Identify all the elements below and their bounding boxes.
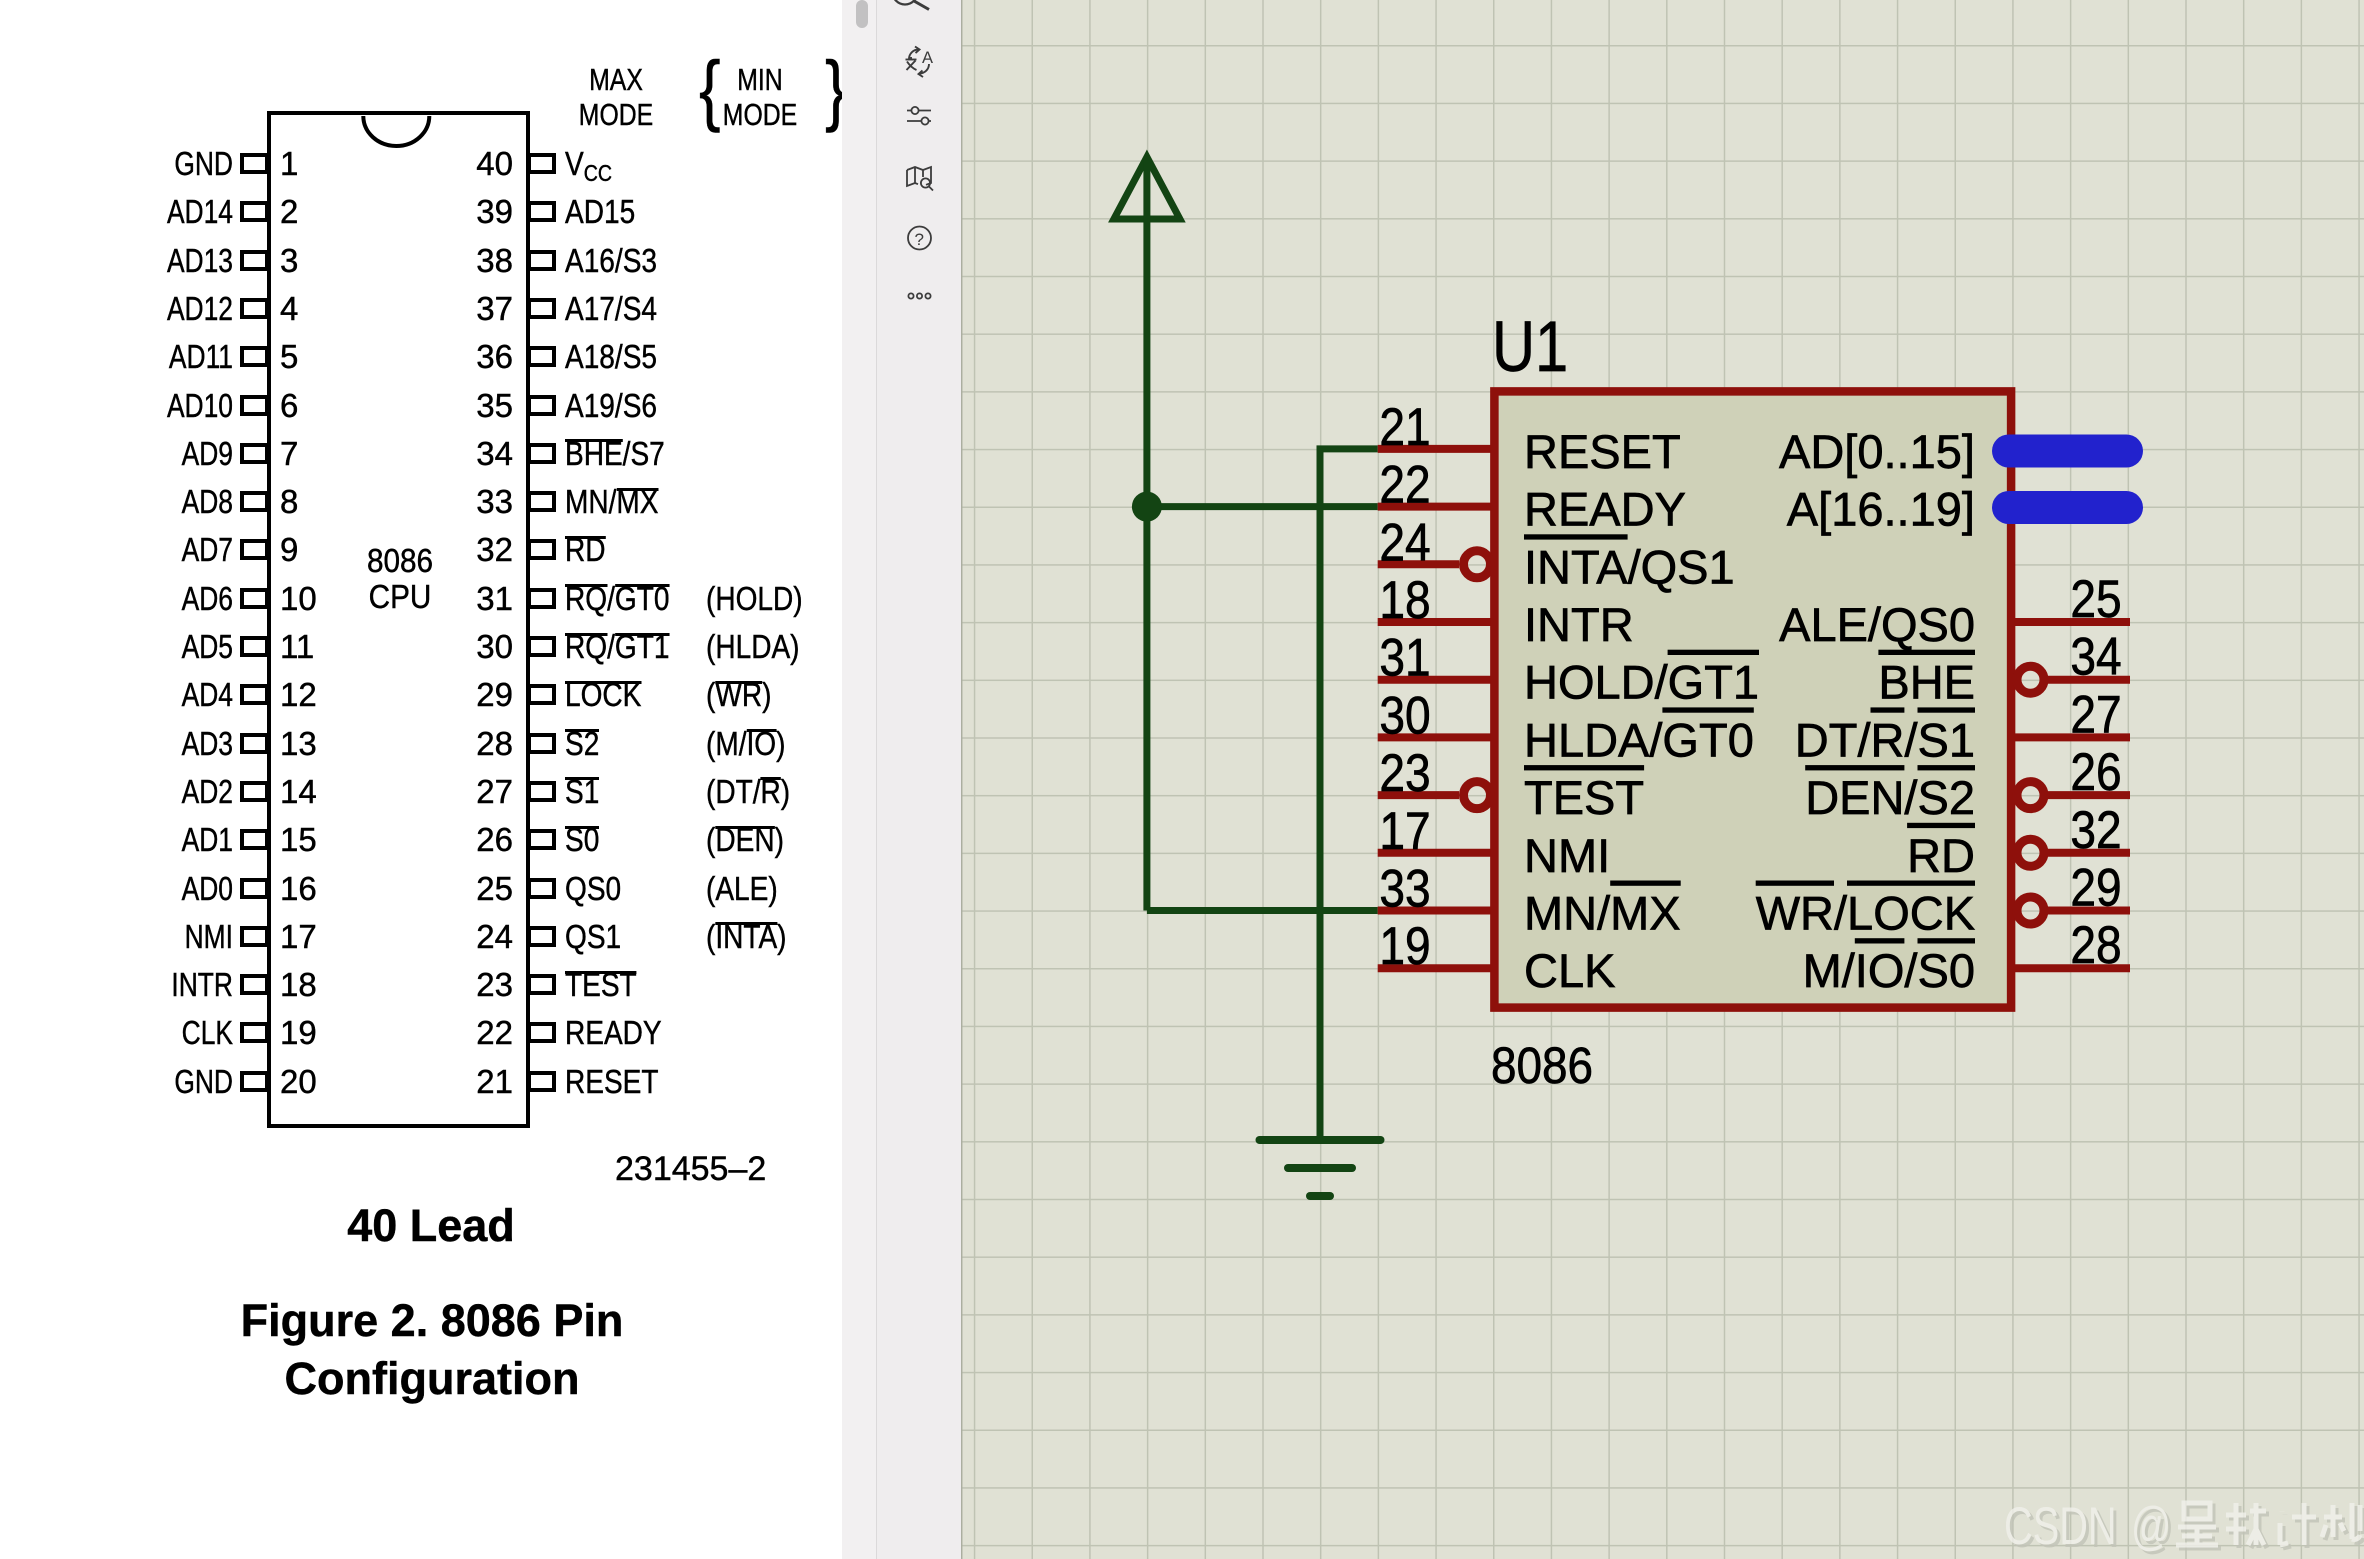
- pin name NMI: [1524, 829, 1610, 882]
- pin name BHE: [1878, 650, 1975, 709]
- DIP pin 38 right side: [527, 250, 556, 271]
- pin 25 (ALE/QS0) stub right: [2015, 618, 2130, 626]
- svg-text:CLK: CLK: [1524, 944, 1615, 997]
- svg-text:U1: U1: [1492, 307, 1568, 386]
- DIP pin 37 right side: [527, 298, 556, 319]
- icon help: [908, 227, 931, 250]
- svg-text:ALE/QS0: ALE/QS0: [1779, 598, 1975, 651]
- DIP pin 29 right side: [527, 684, 556, 705]
- pin 23 (TEST) stub left: [1378, 782, 1491, 809]
- icon sliders: [907, 107, 931, 125]
- bus AD[0..15]: [1992, 435, 2143, 468]
- DIP pin 19 (CLK) left side: [240, 1022, 269, 1043]
- pin number 26: [2070, 742, 2121, 802]
- svg-text:31: 31: [1379, 628, 1430, 688]
- icon more dots: [908, 293, 930, 298]
- DIP pin 21 right side: [527, 1071, 556, 1092]
- pin number 25: [2070, 569, 2121, 629]
- svg-text:TEST: TEST: [1524, 771, 1644, 824]
- DIP pin 31 right side: [527, 588, 556, 609]
- DIP pin 34 right side: [527, 443, 556, 464]
- pin name READY: [1524, 483, 1686, 536]
- svg-text:BHE: BHE: [1878, 656, 1975, 709]
- pin number 28: [2070, 915, 2121, 975]
- svg-text:32: 32: [2070, 800, 2121, 860]
- pin name HLDA/GT0: [1524, 707, 1754, 766]
- pin 22 (READY) stub left: [1378, 503, 1491, 511]
- pin name CLK: [1524, 944, 1615, 997]
- pin number 34: [2070, 627, 2121, 687]
- pin name INTA/QS1: [1524, 534, 1735, 593]
- DIP pin 25 right side: [527, 878, 556, 899]
- pin number 33: [1379, 858, 1430, 918]
- pin number 31: [1379, 628, 1430, 688]
- svg-text:DEN/S2: DEN/S2: [1805, 771, 1975, 824]
- DIP pin 18 (INTR) left side: [240, 974, 269, 995]
- DIP pin 27 right side: [527, 781, 556, 802]
- svg-text:A: A: [922, 49, 933, 67]
- svg-text:MN/MX: MN/MX: [1524, 887, 1681, 940]
- DIP pin 7 (AD9) left side: [240, 443, 269, 464]
- DIP pin 26 right side: [527, 829, 556, 850]
- DIP pin 17 (NMI) left side: [240, 926, 269, 947]
- wire VCC vertical rail: [1143, 219, 1150, 911]
- svg-text:HLDA/GT0: HLDA/GT0: [1524, 713, 1754, 766]
- pin name M/IO/S0: [1803, 938, 1975, 997]
- pin name ALE/QS0: [1779, 598, 1975, 651]
- svg-text:?: ?: [915, 230, 924, 249]
- svg-text:33: 33: [1379, 858, 1430, 918]
- watermark CSDN @xingxinjihua: [2004, 1496, 2174, 1558]
- DIP pin 3 (AD13) left side: [240, 250, 269, 271]
- svg-text:21: 21: [1379, 397, 1430, 457]
- DIP pin 9 (AD7) left side: [240, 539, 269, 560]
- label MAX MODE header: [568, 62, 664, 132]
- DIP pin 35 right side: [527, 395, 556, 416]
- DIP pin 11 (AD5) left side: [240, 636, 269, 657]
- svg-text:M/IO/S0: M/IO/S0: [1803, 944, 1975, 997]
- IC U1 8086 body: [1494, 391, 2011, 1007]
- label 8086 CPU inside body: [337, 543, 463, 615]
- power symbol VCC arrow: [1114, 157, 1180, 219]
- DIP pin 1 (GND) left side: [240, 153, 269, 174]
- pin 29 (WR/LOCK) stub right: [2017, 897, 2130, 924]
- DIP pin 15 (AD1) left side: [240, 829, 269, 850]
- svg-text:RD: RD: [1907, 829, 1975, 882]
- svg-text:23: 23: [1379, 743, 1430, 803]
- svg-text:AD[0..15]: AD[0..15]: [1779, 425, 1975, 478]
- DIP pin 5 (AD11) left side: [240, 346, 269, 367]
- DIP pin 40 right side: [527, 153, 556, 174]
- wire RESET pin to ground rail: [1320, 449, 1378, 1140]
- pin name DT/R/S1: [1795, 707, 1975, 766]
- pin number 24: [1379, 512, 1430, 572]
- svg-text:WR/LOCK: WR/LOCK: [1756, 887, 1975, 940]
- svg-text:RESET: RESET: [1524, 425, 1681, 478]
- pin number 17: [1379, 801, 1430, 861]
- DIP pin 23 right side: [527, 974, 556, 995]
- DIP pin 28 right side: [527, 733, 556, 754]
- label 231455-2: [615, 1150, 766, 1189]
- label 8086 component value: [1491, 1038, 1593, 1095]
- svg-text:READY: READY: [1524, 483, 1686, 536]
- pin name MN/MX: [1524, 881, 1681, 940]
- label MIN MODE header with braces: [699, 43, 721, 135]
- pin name RESET: [1524, 425, 1681, 478]
- pin name TEST: [1524, 765, 1644, 824]
- toolbar strip: [876, 0, 961, 1559]
- DIP pin 14 (AD2) left side: [240, 781, 269, 802]
- svg-text:NMI: NMI: [1524, 829, 1610, 882]
- pin 32 (RD) stub right: [2017, 839, 2130, 866]
- svg-text:30: 30: [1379, 685, 1430, 745]
- icon translate: [909, 47, 929, 78]
- schematic sheet left boundary: [961, 0, 963, 1559]
- pin 30 (HLDA/GT0) stub left: [1378, 733, 1491, 741]
- pin 18 (INTR) stub left: [1378, 618, 1491, 626]
- pin 27 (DT/R/S1) stub right: [2015, 733, 2130, 741]
- svg-text:HOLD/GT1: HOLD/GT1: [1524, 656, 1759, 709]
- DIP pin 22 right side: [527, 1022, 556, 1043]
- icon magnifier (clipped at top): [893, 0, 918, 5]
- caption Figure 2. 8086 Pin Configuration: [132, 1292, 732, 1408]
- IC notch (pin-1 index): [267, 110, 530, 170]
- DIP pin 13 (AD3) left side: [240, 733, 269, 754]
- svg-text:CSDN: CSDN: [2004, 1496, 2117, 1555]
- pin 19 (CLK) stub left: [1378, 964, 1491, 972]
- ground symbol: [1260, 1140, 1381, 1196]
- caption 40 Lead: [131, 1200, 731, 1252]
- svg-text:25: 25: [2070, 569, 2121, 629]
- pin 21 (RESET) stub left: [1378, 445, 1491, 453]
- icon map with magnifier: [907, 167, 933, 191]
- svg-text:28: 28: [2070, 915, 2121, 975]
- DIP pin 4 (AD12) left side: [240, 298, 269, 319]
- svg-text:@: @: [2131, 1496, 2171, 1555]
- pin name DEN/S2: [1805, 765, 1975, 824]
- pin 24 (INTA/QS1) stub left: [1378, 551, 1491, 578]
- pin name INTR: [1524, 598, 1634, 651]
- svg-text:A[16..19]: A[16..19]: [1787, 483, 1975, 536]
- pin number 23: [1379, 743, 1430, 803]
- bus A[16..19]: [1992, 491, 2143, 524]
- svg-text:34: 34: [2070, 627, 2121, 687]
- DIP pin 12 (AD4) left side: [240, 684, 269, 705]
- DIP pin 24 right side: [527, 926, 556, 947]
- DIP pin 10 (AD6) left side: [240, 588, 269, 609]
- svg-text:19: 19: [1379, 916, 1430, 976]
- svg-text:22: 22: [1379, 455, 1430, 515]
- svg-text:26: 26: [2070, 742, 2121, 802]
- junction dot node VCC/READY: [1132, 492, 1162, 522]
- DIP pin 32 right side: [527, 539, 556, 560]
- DIP pin 36 right side: [527, 346, 556, 367]
- svg-text:DT/R/S1: DT/R/S1: [1795, 713, 1975, 766]
- DIP pin 33 right side: [527, 491, 556, 512]
- pin name WR/LOCK: [1756, 881, 1975, 940]
- label U1 reference designator: [1492, 307, 1568, 386]
- pin 17 (NMI) stub left: [1378, 849, 1491, 857]
- DIP pin 8 (AD8) left side: [240, 491, 269, 512]
- IC body 8086 CPU DIP-40 outline: [267, 111, 530, 1128]
- pin number 19: [1379, 916, 1430, 976]
- toolbar scrollbar gutter: [842, 0, 876, 1559]
- DIP pin 20 (GND) left side: [240, 1071, 269, 1092]
- pin number 30: [1379, 685, 1430, 745]
- DIP pin 39 right side: [527, 201, 556, 222]
- DIP pin 16 (AD0) left side: [240, 878, 269, 899]
- wire VCC rail to MN/MX pin: [1147, 907, 1378, 914]
- pin number 22: [1379, 455, 1430, 515]
- DIP pin 30 right side: [527, 636, 556, 657]
- pin 33 (MN/MX) stub left: [1378, 907, 1491, 915]
- svg-text:17: 17: [1379, 801, 1430, 861]
- pin number 18: [1379, 570, 1430, 630]
- svg-text:INTR: INTR: [1524, 598, 1634, 651]
- svg-text:24: 24: [1379, 512, 1430, 572]
- svg-text:29: 29: [2070, 857, 2121, 917]
- pin 34 (BHE) stub right: [2017, 666, 2130, 693]
- pin number 27: [2070, 684, 2121, 744]
- pin 31 (HOLD/GT1) stub left: [1378, 676, 1491, 684]
- pin 26 (DEN/S2) stub right: [2017, 782, 2130, 809]
- pin name RD: [1907, 823, 1975, 882]
- DIP pin 6 (AD10) left side: [240, 395, 269, 416]
- DIP pin 2 (AD14) left side: [240, 201, 269, 222]
- pin name HOLD/GT1: [1524, 650, 1759, 709]
- pin number 21: [1379, 397, 1430, 457]
- svg-text:27: 27: [2070, 684, 2121, 744]
- svg-text:8086: 8086: [1491, 1038, 1593, 1095]
- pin 28 (M/IO/S0) stub right: [2015, 964, 2130, 972]
- pin number 29: [2070, 857, 2121, 917]
- svg-text:18: 18: [1379, 570, 1430, 630]
- wire VCC tap to READY pin: [1147, 503, 1378, 510]
- pin number 32: [2070, 800, 2121, 860]
- svg-text:INTA/QS1: INTA/QS1: [1524, 540, 1735, 593]
